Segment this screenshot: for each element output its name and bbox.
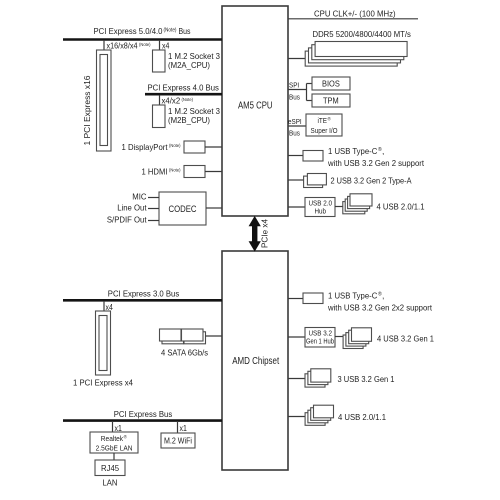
DIMM stack (4 modules) (305, 42, 407, 67)
chipset block U2 (222, 251, 288, 470)
wire codec to CPU (206, 207, 222, 209)
BIOS block (312, 77, 350, 90)
label SPI Bus (289, 81, 300, 102)
wire MIC (148, 197, 159, 199)
iTE Super I/O block (306, 114, 342, 136)
label M2A (168, 51, 220, 70)
svg-text:1 DisplayPort: 1 DisplayPort (122, 142, 169, 152)
svg-text:Super I/O: Super I/O (311, 126, 338, 135)
RJ45 port (95, 460, 125, 476)
wire bus to PCIe x4 slot (103, 301, 105, 311)
ports 4 USB 2.0/1.1 (stack of 4) (343, 194, 372, 214)
label PCIe x4 (260, 219, 270, 248)
wire SATA to chipset (206, 335, 223, 337)
wire hub to USB 2.0 stack (335, 206, 343, 208)
USB 2.0 hub block (305, 198, 335, 217)
svg-text:PCI Express 4.0 Bus: PCI Express 4.0 Bus (148, 83, 219, 93)
svg-text:(M2A_CPU): (M2A_CPU) (168, 60, 210, 70)
label x4/x2 (162, 97, 194, 106)
svg-text:BIOS: BIOS (322, 79, 340, 89)
PCIe x4 interconnect arrow (249, 217, 260, 252)
port USB Type-C (CPU) (303, 151, 323, 162)
svg-text:RJ45: RJ45 (101, 463, 119, 473)
svg-text:(Note): (Note) (139, 42, 151, 48)
svg-text:(M2B_CPU): (M2B_CPU) (168, 115, 210, 125)
wire SPI bus bracket (288, 84, 312, 101)
svg-text:1 USB Type-C: 1 USB Type-C (328, 291, 377, 301)
svg-text:(Note): (Note) (164, 28, 177, 34)
wire HDMI to CPU (205, 171, 222, 173)
svg-text:Hub: Hub (315, 209, 327, 216)
wire CPU CLK (288, 18, 418, 20)
svg-text:4 USB 2.0/1.1: 4 USB 2.0/1.1 (377, 202, 425, 212)
svg-text:eSPI: eSPI (288, 117, 302, 126)
socket M2A_CPU (153, 50, 166, 72)
wire S/PDIF Out (148, 220, 159, 222)
bus: PCI Express 4.0 (145, 83, 222, 95)
label M2B (168, 106, 220, 125)
wire LAN to RJ45 (113, 453, 115, 460)
svg-text:Bus: Bus (289, 93, 300, 102)
svg-text:4 USB 3.2 Gen 1: 4 USB 3.2 Gen 1 (377, 334, 434, 344)
wire: bus to M2A socket (159, 40, 161, 50)
port DisplayPort (184, 141, 205, 153)
svg-text:M.2 WiFi: M.2 WiFi (164, 437, 192, 446)
svg-text:AM5 CPU: AM5 CPU (238, 100, 273, 111)
bus: PCI Express 3.0 (63, 289, 222, 301)
wire DisplayPort to CPU (205, 146, 222, 148)
wire USB Type-C (CPU) (288, 155, 303, 157)
svg-text:S/PDIF Out: S/PDIF Out (107, 215, 147, 225)
slot: 1 PCI Express x16 (97, 50, 112, 151)
ports 3 USB 3.2 Gen 1 (stack of 3) (305, 369, 331, 387)
port HDMI (184, 166, 205, 178)
svg-text:LAN: LAN (103, 478, 118, 488)
svg-text:with USB 3.2 Gen 2 support: with USB 3.2 Gen 2 support (327, 158, 424, 168)
svg-text:SPI: SPI (289, 81, 299, 90)
svg-text:2.5GbE LAN: 2.5GbE LAN (96, 444, 133, 453)
svg-text:1 HDMI: 1 HDMI (142, 167, 168, 177)
label 1 HDMI (142, 167, 181, 177)
svg-text:,: , (382, 291, 384, 301)
wire USB Type-C (chipset) (288, 298, 303, 300)
svg-text:PCI Express Bus: PCI Express Bus (114, 409, 173, 419)
TPM block (312, 94, 350, 107)
svg-text:USB 3.2: USB 3.2 (309, 331, 333, 338)
wire hub to USB 3.2 stack (335, 336, 343, 338)
svg-text:CPU CLK+/- (100 MHz): CPU CLK+/- (100 MHz) (314, 9, 396, 19)
svg-text:x4/x2: x4/x2 (162, 97, 181, 106)
svg-text:DDR5 5200/4800/4400 MT/s: DDR5 5200/4800/4400 MT/s (313, 29, 411, 39)
svg-text:PCI Express 3.0 Bus: PCI Express 3.0 Bus (108, 289, 179, 299)
svg-text:x4: x4 (162, 41, 170, 50)
svg-text:x16/x8/x4: x16/x8/x4 (107, 41, 139, 50)
svg-text:1 PCI Express x16: 1 PCI Express x16 (82, 75, 92, 145)
wire: bus to PCIe x16 slot (103, 40, 105, 50)
svg-text:Gen 1 Hub: Gen 1 Hub (306, 339, 334, 346)
label USB Type-C (CPU) (327, 146, 424, 168)
wire: bus to M2B socket (159, 95, 161, 105)
SATA drives (2 pairs) (160, 329, 206, 344)
svg-text:PCI Express 5.0/4.0: PCI Express 5.0/4.0 (94, 26, 163, 36)
wire USB 2.0 hub (288, 206, 305, 208)
svg-text:AMD Chipset: AMD Chipset (232, 356, 279, 367)
svg-text:4 SATA 6Gb/s: 4 SATA 6Gb/s (161, 348, 208, 358)
svg-text:MIC: MIC (132, 192, 146, 202)
svg-text:2 USB 3.2 Gen 2 Type-A: 2 USB 3.2 Gen 2 Type-A (331, 176, 412, 186)
ports 4 USB 2.0/1.1 (stack of 4) (305, 405, 333, 425)
svg-text:x1: x1 (180, 424, 187, 433)
svg-text:3 USB 3.2 Gen 1: 3 USB 3.2 Gen 1 (338, 374, 395, 384)
svg-text:4 USB 2.0/1.1: 4 USB 2.0/1.1 (338, 412, 386, 422)
svg-text:TPM: TPM (323, 96, 339, 106)
bus: PCI Express 5.0/4.0 (63, 26, 222, 40)
USB 3.2 Gen 1 hub block (305, 328, 335, 348)
wire 4 USB 2.0/1.1 (chipset) (288, 416, 305, 418)
wire 3 USB 3.2 Gen 1 (288, 378, 305, 380)
svg-text:1 USB Type-C: 1 USB Type-C (328, 146, 377, 156)
wire bus to LAN (112, 421, 114, 432)
wire Line Out (148, 208, 159, 210)
svg-text:1 PCI Express x4: 1 PCI Express x4 (73, 378, 133, 388)
wire CPU to DIMM stack (288, 58, 306, 60)
svg-text:Realtek: Realtek (101, 434, 124, 443)
bus: PCI Express (63, 409, 222, 421)
label USB Type-C (chipset) (327, 291, 432, 313)
svg-text:Bus: Bus (179, 26, 191, 36)
codec block (159, 192, 206, 225)
wire USB 3.2 Gen 1 hub (288, 336, 305, 338)
Realtek LAN block (90, 432, 138, 453)
svg-text:PCIe x4: PCIe x4 (260, 219, 270, 248)
label x16/x8/x4 (107, 41, 151, 50)
svg-text:(Note): (Note) (169, 168, 181, 174)
port USB Type-C (chipset) (303, 293, 323, 304)
svg-text:CODEC: CODEC (169, 203, 197, 214)
svg-text:USB 2.0: USB 2.0 (309, 201, 333, 208)
svg-text:Line Out: Line Out (117, 203, 147, 213)
svg-text:Bus: Bus (289, 129, 300, 138)
label eSPI Bus (288, 117, 302, 138)
svg-text:(Note): (Note) (182, 97, 194, 103)
svg-text:(Note): (Note) (169, 143, 181, 149)
M.2 WiFi block (161, 433, 195, 448)
CPU block U1 (222, 6, 288, 216)
ports 4 USB 3.2 Gen 1 (stack of 4) (343, 328, 371, 349)
wire eSPI (288, 125, 306, 127)
wire bus to WiFi (177, 421, 179, 433)
svg-text:,: , (382, 146, 384, 156)
ports 2 USB 3.2 Gen 2 Type-A (stack of 2) (304, 174, 327, 188)
label 1 DisplayPort (122, 142, 181, 152)
svg-text:iTE: iTE (318, 116, 328, 125)
svg-text:with USB 3.2 Gen 2x2 support: with USB 3.2 Gen 2x2 support (327, 303, 432, 313)
slot: 1 PCI Express x4 (96, 311, 111, 375)
wire 2 USB 3.2 Gen 2 (288, 179, 304, 181)
socket M2B_CPU (153, 105, 166, 128)
